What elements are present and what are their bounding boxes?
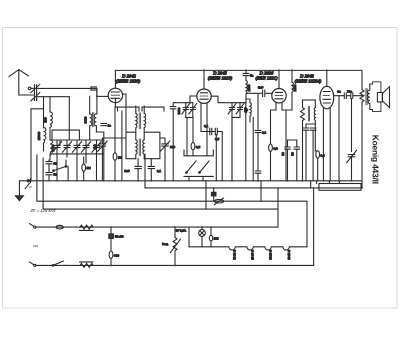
wires U2 grid block: [186, 103, 193, 156]
svg-text:50: 50: [54, 162, 58, 166]
wire grid feed T1: [97, 95, 108, 97]
wire v278: [277, 188, 279, 209]
svg-text:5nF: 5nF: [258, 86, 263, 90]
svg-text:ZF = 128 kHz: ZF = 128 kHz: [30, 208, 57, 213]
svg-text:50+50: 50+50: [115, 234, 124, 238]
resistor mains bottom: [80, 262, 94, 268]
svg-text:500: 500: [44, 117, 48, 122]
wire v145: [144, 154, 146, 188]
wire v206: [205, 181, 207, 209]
transformer core: [366, 89, 367, 105]
wire heater left: [188, 227, 190, 247]
trimmer cap row 1b: [62, 140, 71, 157]
tube U3: [272, 89, 286, 103]
wire U2 grid top: [211, 96, 246, 103]
mains line top: [36, 226, 278, 228]
IF loop right: [144, 132, 160, 159]
wire v261: [260, 181, 262, 201]
svg-text:1000: 1000: [247, 84, 251, 91]
capacitor ant C2 (trimmer): [31, 93, 40, 101]
tube U1: [108, 88, 122, 102]
caps 0,1/0,5 on screen line: [201, 128, 222, 181]
svg-text:0,1: 0,1: [157, 169, 162, 173]
trimmer U2 left b: [189, 103, 197, 118]
capacitor 4uF: [213, 188, 215, 201]
wire grid U3: [247, 93, 272, 129]
misc vertical wires: [59, 140, 61, 145]
power rectangle: [319, 184, 361, 191]
bus terminal: [25, 179, 30, 189]
resistor oval U3: [270, 135, 272, 181]
svg-text:300: 300: [114, 254, 119, 258]
capacitor 0,1uF: [148, 159, 154, 181]
svg-text:3n: 3n: [338, 90, 342, 94]
svg-text:50: 50: [281, 152, 285, 156]
bus line L1: [145, 187, 363, 189]
coupling caps U4 out: [334, 93, 362, 99]
speaker box: [370, 82, 381, 112]
antenna coil primary: [89, 96, 91, 113]
terminal arrow: [30, 224, 34, 227]
interstage coil: [314, 100, 316, 108]
fuse oval: [56, 225, 63, 229]
svg-text:(REN 1821): (REN 1821): [255, 76, 278, 81]
svg-text:2n: 2n: [29, 185, 33, 189]
svg-text:70n: 70n: [347, 90, 352, 94]
ground: [19, 181, 28, 196]
svg-text:150: 150: [214, 237, 219, 241]
svg-text:(RENS 1823d): (RENS 1823d): [295, 79, 322, 84]
bus line L3: [43, 158, 278, 227]
main ground bus: [29, 180, 361, 182]
svg-text:Koenig 443/II: Koenig 443/II: [371, 135, 381, 184]
svg-text:220: 220: [33, 244, 38, 248]
IF transformer T1 primary: [136, 106, 137, 140]
wire cap junction down: [338, 96, 340, 181]
switch block: [184, 150, 213, 181]
resistor oval U4 grid: [316, 151, 320, 158]
coil 1000 left: [243, 70, 249, 80]
capacitor grid U3: [263, 90, 265, 97]
electrolytic 50+50: [110, 227, 112, 251]
capacitor 1n: [101, 124, 107, 126]
svg-text:100: 100: [93, 144, 97, 149]
switch mains: [53, 261, 66, 265]
svg-text:Reg.: Reg.: [162, 242, 169, 246]
svg-text:5nF: 5nF: [124, 169, 129, 173]
trimmer U2 right a: [228, 103, 236, 181]
wire C1 to grid node: [38, 88, 97, 96]
variable cap tone: [347, 99, 357, 181]
svg-text:D 2043: D 2043: [287, 250, 291, 260]
svg-text:0,3: 0,3: [321, 154, 326, 158]
svg-text:0,5: 0,5: [196, 145, 201, 149]
stubs to rect: [311, 181, 340, 266]
wire antenna to caps: [31, 87, 33, 89]
antenna: [9, 70, 33, 95]
coil core: [93, 113, 94, 127]
svg-text:D 2045: D 2045: [251, 250, 255, 260]
resistor 150: [210, 227, 212, 247]
svg-text:8000: 8000: [177, 107, 181, 114]
variable resistor Reg: [171, 227, 181, 265]
caps 50 pair: [285, 140, 290, 181]
svg-text:1n: 1n: [108, 124, 112, 128]
svg-text:0,3: 0,3: [274, 147, 279, 151]
terminal arrow b: [30, 262, 34, 265]
wire top interstage: [303, 99, 316, 101]
wire C2 right: [38, 97, 70, 140]
resistor 3M: [83, 157, 85, 181]
plate supply line: [115, 69, 362, 71]
resistor 300: [109, 251, 113, 258]
capacitor 50pF upper: [46, 160, 52, 166]
tube U4 output: [320, 86, 334, 109]
coil L1a: [49, 97, 51, 112]
IF transformer T1 secondary top lead: [143, 106, 145, 113]
svg-text:3M: 3M: [87, 166, 92, 170]
caps small pair: [303, 124, 316, 181]
svg-text:5n: 5n: [250, 74, 254, 78]
trimmer cap row 1c: [72, 140, 81, 181]
bus line L2: [37, 155, 307, 247]
cathode line U1: [115, 107, 164, 111]
trimmer IF right: [160, 138, 170, 181]
coil 1000 right: [291, 70, 293, 82]
speaker: [377, 93, 382, 102]
svg-text:1000: 1000: [293, 84, 297, 91]
svg-text:4V 0,1A: 4V 0,1A: [175, 229, 186, 233]
trimmer cap row 1: [52, 140, 61, 181]
svg-text:(RENS 1819): (RENS 1819): [208, 76, 233, 81]
capacitor 50pF lower: [46, 166, 52, 181]
wire U3 cathode: [271, 110, 287, 181]
capacitor ant C1 (trimmer): [31, 84, 40, 92]
svg-text:0,5: 0,5: [215, 137, 220, 141]
wire v173: [170, 103, 185, 181]
wire trimmer bottoms: [50, 153, 104, 155]
antenna terminal: [28, 87, 31, 90]
wave switch: [54, 160, 69, 181]
trimmer U2 left a: [182, 103, 190, 118]
mains line bottom: [36, 264, 314, 266]
wire trimmer loop top: [52, 130, 79, 140]
svg-text:D 2036: D 2036: [269, 250, 273, 260]
interstage core: [308, 107, 309, 122]
output transformer primary: [360, 70, 364, 103]
wire trimmer top row: [50, 139, 93, 141]
svg-text:50: 50: [290, 152, 294, 156]
capacitor 0,1 U3: [255, 130, 261, 180]
trimmer cap row 2a: [81, 140, 90, 163]
coil L1c: [50, 140, 52, 155]
wire row2 top: [93, 132, 104, 181]
potentiometer 50: [214, 199, 223, 203]
resistor mains top: [80, 225, 94, 230]
left vertical wire: [31, 109, 44, 181]
connector: [91, 87, 97, 90]
coil L1b: [43, 97, 45, 128]
IF transformer T1 lower primary: [136, 140, 137, 159]
wire v121: [121, 111, 123, 181]
svg-text:(RENS 1820): (RENS 1820): [116, 78, 141, 83]
svg-text:0,1: 0,1: [204, 124, 209, 128]
IF loop left: [126, 107, 136, 159]
resistor 1M: [114, 107, 116, 181]
tube U2: [197, 89, 211, 103]
trimmer cap row 2b: [92, 140, 101, 181]
svg-text:15000: 15000: [37, 131, 41, 140]
resistor zigzag interstage: [301, 100, 305, 181]
svg-text:D 2042: D 2042: [233, 250, 237, 260]
trimmer U2 right b: [232, 103, 244, 118]
trimmer IF left: [98, 138, 126, 181]
IF transformer T1 lower secondary: [143, 140, 144, 159]
coil 100: [246, 99, 251, 122]
IF core: [139, 113, 140, 156]
lamp: [199, 230, 206, 237]
svg-text:50: 50: [54, 173, 58, 177]
capacitor 5nF: [135, 159, 141, 181]
resistor U2: [191, 143, 195, 150]
svg-text:8000: 8000: [84, 116, 88, 123]
heater line: [189, 247, 307, 250]
svg-text:0,1: 0,1: [262, 131, 267, 135]
output transformer secondary: [368, 84, 370, 110]
antenna coil secondary: [96, 89, 98, 114]
